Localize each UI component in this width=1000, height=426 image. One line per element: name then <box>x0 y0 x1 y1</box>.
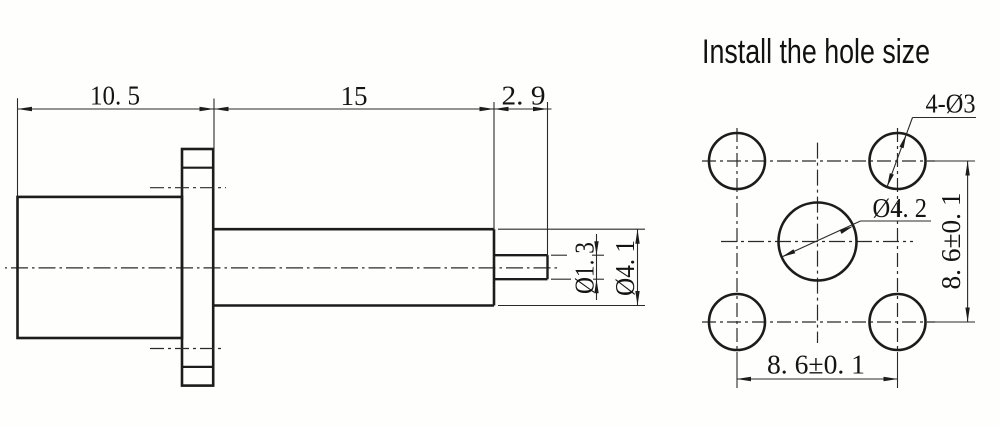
bottom 8.6 arrow right <box>884 377 899 381</box>
hole bottom-left circle <box>709 294 765 350</box>
extension line right column bottom <box>897 352 899 388</box>
svg-text:Ø4. 2: Ø4. 2 <box>873 193 928 223</box>
hole top-left circle <box>709 133 765 189</box>
extension line pin top <box>551 254 567 256</box>
vertical 8.6 arrow top <box>965 161 969 176</box>
flange top face line <box>182 167 213 169</box>
extension line flange right <box>213 99 215 150</box>
4-dia3 leader <box>887 118 976 188</box>
arrow 10.5 right <box>200 107 215 111</box>
arrow 2.9 left <box>494 107 509 111</box>
svg-text:10. 5: 10. 5 <box>90 81 140 111</box>
main axis centerline <box>5 267 560 269</box>
dia4.1 arrow bottom <box>635 291 639 306</box>
top dimension line <box>18 108 552 110</box>
shaft outline <box>213 229 494 305</box>
extension line shaft end <box>493 102 495 229</box>
extension line left of 10.5 <box>17 98 19 197</box>
svg-text:Ø1. 3: Ø1. 3 <box>570 242 600 294</box>
svg-text:4-Ø3: 4-Ø3 <box>926 89 976 119</box>
dia1.3 dimension line <box>596 234 598 300</box>
hole bottom-right circle <box>870 294 926 350</box>
dia4.1 dimension line <box>637 229 639 305</box>
dia4.2 leader <box>782 221 931 257</box>
centerline middle column vertical <box>817 143 819 343</box>
svg-text:Install the hole size: Install the hole size <box>702 33 930 71</box>
centerline bottom row horizontal <box>702 321 935 323</box>
dia4.2 leader arrow upper <box>840 226 854 234</box>
centerline right column vertical <box>897 128 899 352</box>
extension line shaft bottom <box>498 305 645 307</box>
vertical 8.6 arrow bottom <box>965 308 969 323</box>
dia1.3 arrow top <box>594 241 598 255</box>
arrow 10.5 left <box>18 107 33 111</box>
extension line left column bottom <box>736 352 738 388</box>
bottom 8.6 arrow left <box>737 377 752 381</box>
extension line pin bottom <box>551 278 571 280</box>
arrow 15 left <box>214 107 229 111</box>
extension line pin end <box>547 102 549 255</box>
centerline left column vertical <box>736 128 738 352</box>
dia1.3 arrow bottom <box>594 279 598 293</box>
hole top-right circle <box>870 133 926 189</box>
extension line top row right <box>935 160 975 162</box>
body outline <box>18 197 183 338</box>
flange hole centerline bottom <box>150 348 225 350</box>
4-dia3 leader arrow upper <box>899 134 906 148</box>
dia4.2 leader arrow lower <box>782 249 796 257</box>
arrow 2.9 right <box>533 107 548 111</box>
bottom dimension line 8.6 <box>737 378 899 380</box>
pin outline <box>494 255 548 279</box>
flange hole centerline top <box>150 187 226 189</box>
svg-text:Ø4. 1: Ø4. 1 <box>610 240 640 296</box>
extension line shaft top <box>498 228 645 230</box>
svg-text:8. 6±0. 1: 8. 6±0. 1 <box>767 350 865 380</box>
centerline middle row horizontal <box>721 241 913 243</box>
center hole circle <box>779 203 857 281</box>
flange outline <box>182 149 213 386</box>
svg-text:8. 6±0. 1: 8. 6±0. 1 <box>936 193 966 290</box>
arrow 15 right <box>480 107 495 111</box>
vertical dimension line 8.6 <box>967 161 969 322</box>
extension line bottom row right <box>935 321 975 323</box>
centerline top row horizontal <box>702 160 935 162</box>
svg-text:2. 9: 2. 9 <box>502 81 546 111</box>
svg-text:15: 15 <box>341 81 368 111</box>
flange bottom face line <box>182 366 213 368</box>
4-dia3 leader arrow lower <box>887 173 894 187</box>
dia4.1 arrow top <box>635 229 639 244</box>
